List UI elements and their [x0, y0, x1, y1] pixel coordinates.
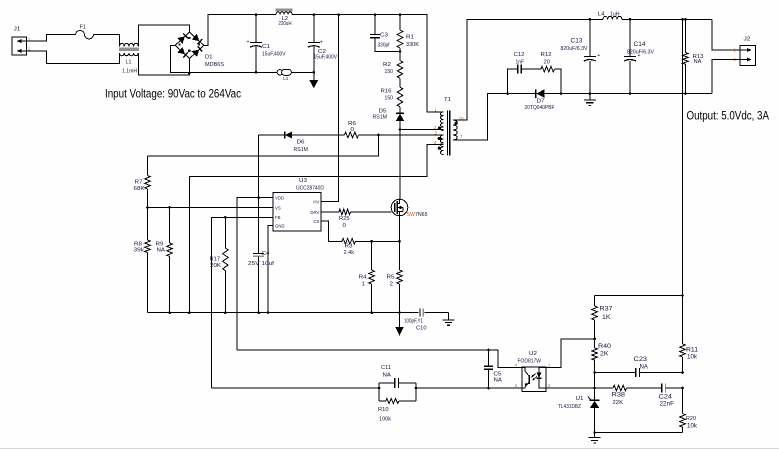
svg-text:R20: R20 — [686, 416, 696, 422]
svg-text:Input Voltage: 90Vac to 264Vac: Input Voltage: 90Vac to 264Vac — [105, 87, 241, 101]
wire T1 pin2 switch node — [400, 129, 443, 131]
diode D7 — [508, 89, 561, 111]
wire DC- rail L3 to C2 — [291, 71, 313, 73]
svg-text:UCC28740D: UCC28740D — [296, 186, 324, 192]
wire F1 to L1 — [94, 35, 120, 47]
wire T1 pin7 to return rail — [453, 94, 508, 140]
svg-text:R10: R10 — [378, 407, 389, 413]
svg-text:D1: D1 — [205, 55, 213, 61]
decor faint bottom line — [0, 448, 779, 450]
svg-text:R7: R7 — [135, 179, 143, 185]
shunt regulator U1 TL431DBZ — [558, 388, 600, 433]
primary ground arrow (bus) — [395, 313, 404, 336]
wire T1 pin10 to output rail — [453, 19, 590, 120]
capacitor C23 — [595, 356, 684, 377]
svg-text:NA: NA — [157, 248, 166, 254]
svg-text:R25: R25 — [339, 216, 350, 222]
svg-text:R8: R8 — [134, 241, 142, 247]
svg-text:1uH: 1uH — [610, 11, 620, 17]
capacitor C13 — [561, 18, 601, 95]
svg-text:NA: NA — [694, 59, 702, 65]
svg-text:C12: C12 — [514, 52, 525, 58]
resistor R16 — [381, 87, 403, 113]
wire primary ground bus — [148, 312, 419, 314]
svg-text:C24: C24 — [659, 394, 673, 401]
svg-text:R4: R4 — [359, 274, 367, 280]
inductor L3 — [277, 69, 291, 81]
svg-text:2: 2 — [390, 281, 394, 287]
svg-text:C13: C13 — [571, 38, 584, 44]
svg-text:R11: R11 — [686, 347, 698, 354]
svg-text:150: 150 — [385, 95, 394, 101]
wire L1 to D1 AC1 — [138, 25, 189, 46]
earth ground secondary — [589, 94, 591, 100]
diode D5 — [373, 109, 405, 130]
svg-text:NA: NA — [494, 377, 503, 383]
resistor R1 — [397, 13, 419, 60]
svg-text:VDD: VDD — [275, 196, 284, 201]
svg-text:100k: 100k — [379, 416, 391, 422]
svg-text:10k: 10k — [687, 422, 698, 429]
transformer T1 — [434, 97, 464, 156]
capacitor C4 — [248, 198, 275, 314]
diode D6 — [259, 131, 322, 153]
fuse F1 — [76, 25, 94, 39]
svg-text:1: 1 — [362, 281, 366, 287]
svg-text:R2: R2 — [383, 62, 391, 68]
svg-text:R17: R17 — [210, 257, 221, 263]
svg-text:TL431DBZ: TL431DBZ — [558, 404, 581, 410]
resistor R3 — [321, 221, 401, 256]
resistor R8 — [134, 208, 151, 313]
svg-text:100pF,Y1: 100pF,Y1 — [404, 319, 423, 325]
svg-text:330pf: 330pf — [378, 43, 390, 49]
svg-text:R9: R9 — [156, 241, 164, 247]
svg-text:U3: U3 — [299, 178, 307, 184]
svg-text:0: 0 — [351, 127, 355, 133]
resistor R37 — [592, 295, 613, 339]
capacitor C11 and resistor R10 — [378, 365, 416, 422]
inductor L2 — [276, 8, 293, 27]
bridge rectifier D1 — [175, 32, 224, 68]
svg-text:0: 0 — [343, 223, 347, 229]
svg-text:J2: J2 — [744, 37, 751, 43]
wire DC+ rail to T1 pin1 — [292, 15, 443, 112]
svg-text:FB: FB — [275, 215, 281, 220]
svg-text:Output: 5.0Vdc, 3A: Output: 5.0Vdc, 3A — [687, 108, 770, 122]
svg-text:C1: C1 — [262, 44, 270, 50]
svg-text:U2: U2 — [529, 351, 537, 357]
capacitor C12 and resistor R12 — [506, 52, 562, 95]
capacitor C2 — [308, 13, 337, 73]
svg-text:20K: 20K — [210, 263, 221, 269]
wire R37 top to output sense — [595, 294, 683, 296]
wire output return rail — [561, 93, 712, 95]
resistor R4 — [359, 241, 375, 314]
junction blob under bridge — [188, 72, 191, 75]
svg-text:C11: C11 — [381, 365, 391, 371]
svg-text:22K: 22K — [613, 400, 624, 406]
svg-text:39k: 39k — [134, 248, 145, 254]
resistor R11 — [680, 295, 699, 372]
svg-text:20TQ040PBF: 20TQ040PBF — [525, 105, 556, 111]
svg-text:C23: C23 — [634, 356, 648, 363]
svg-text:D5: D5 — [379, 109, 387, 115]
wire T1 pin3 aux — [358, 134, 443, 136]
optocoupler U2 FOD817W — [515, 351, 551, 391]
inductor L4 — [598, 11, 622, 19]
wire output rail top — [590, 18, 603, 20]
svg-text:68K: 68K — [134, 186, 145, 192]
wire T1 pin4 to gnd bus — [189, 145, 443, 313]
svg-text:220uH: 220uH — [279, 21, 292, 27]
svg-text:L3: L3 — [283, 76, 288, 81]
wire L1 to D1 AC2 — [138, 53, 189, 75]
wire J1 pin1 to F1 — [27, 35, 76, 41]
svg-text:R38: R38 — [612, 391, 626, 398]
svg-text:F1: F1 — [80, 25, 87, 31]
svg-text:C14: C14 — [634, 42, 647, 48]
svg-text:R6: R6 — [348, 121, 356, 127]
svg-text:20: 20 — [544, 60, 551, 66]
wire D1 left vertex to DC- rail — [170, 45, 277, 72]
wire opto collector to R37 R40 node — [546, 339, 595, 368]
svg-text:10k: 10k — [687, 354, 698, 361]
svg-text:L1: L1 — [126, 60, 132, 66]
svg-text:MDB6S: MDB6S — [205, 62, 224, 68]
resistor R13 — [683, 18, 704, 95]
resistor R5 — [387, 241, 403, 314]
capacitor C3 — [370, 13, 400, 51]
svg-text:1K: 1K — [602, 314, 611, 321]
wire opto cathode to U1 node — [546, 387, 595, 389]
capacitor C1 — [247, 13, 286, 73]
svg-text:+: + — [247, 40, 250, 46]
svg-text:2K: 2K — [600, 351, 609, 358]
wire U1 anode to R20 — [595, 432, 683, 434]
connector J2 — [712, 19, 756, 93]
svg-text:NA: NA — [383, 372, 392, 378]
svg-text:R3: R3 — [345, 244, 353, 250]
wire U3 GND pin — [268, 226, 273, 313]
svg-text:330K: 330K — [406, 42, 419, 48]
wire HV net — [321, 15, 339, 202]
svg-text:+: + — [597, 53, 600, 59]
transistor Q1 SW7N65 — [391, 199, 427, 218]
resistor R25 — [321, 209, 391, 229]
svg-text:SW7N65: SW7N65 — [407, 212, 428, 218]
svg-text:25V 10uf: 25V 10uf — [248, 261, 275, 267]
svg-text:HV: HV — [313, 200, 319, 205]
earth ground at C10 — [448, 313, 450, 320]
svg-text:FOD817W: FOD817W — [518, 359, 542, 365]
svg-text:15uF,400V: 15uF,400V — [314, 55, 338, 61]
earth ground at U1 — [594, 433, 596, 438]
resistor R38 — [595, 385, 662, 406]
capacitor C24 — [659, 384, 684, 408]
wire aux to R7 — [148, 135, 379, 156]
svg-text:DRV: DRV — [310, 210, 319, 215]
resistor R17 — [210, 217, 229, 314]
svg-text:820uF/6.3V: 820uF/6.3V — [627, 49, 654, 55]
wire output sense vertical — [682, 19, 684, 295]
resistor R9 — [156, 208, 173, 314]
resistor R7 — [134, 156, 151, 207]
svg-text:R16: R16 — [381, 88, 392, 94]
capacitor C10 — [404, 309, 427, 332]
svg-text:150: 150 — [385, 69, 394, 75]
svg-text:T1: T1 — [444, 97, 451, 103]
svg-text:820uF/6.3V: 820uF/6.3V — [561, 46, 588, 52]
svg-text:22nF: 22nF — [660, 401, 675, 408]
svg-text:15uF,400V: 15uF,400V — [262, 52, 286, 58]
svg-text:RS1M: RS1M — [373, 115, 388, 121]
wire FB to opto emitter — [212, 387, 380, 389]
svg-text:1nF: 1nF — [516, 60, 525, 66]
wire D6 cathode to VDD — [258, 135, 260, 198]
svg-text:1.1mH: 1.1mH — [122, 69, 137, 75]
svg-text:L4: L4 — [598, 11, 605, 17]
wire VDD line — [237, 198, 273, 350]
svg-text:GND: GND — [275, 224, 285, 229]
wire J1 pin2 to L1 — [27, 51, 120, 63]
svg-text:VS: VS — [275, 205, 281, 210]
svg-text:C10: C10 — [416, 326, 427, 332]
svg-text:R5: R5 — [387, 274, 395, 280]
svg-text:R1: R1 — [406, 35, 414, 41]
op-amp U3 UCC28740D — [273, 178, 324, 231]
resistor R40 — [592, 339, 611, 388]
resistor R6 — [322, 121, 359, 138]
capacitor C5 — [484, 350, 502, 389]
svg-text:CS: CS — [313, 219, 319, 224]
resistor R2 — [383, 61, 403, 88]
svg-text:U1: U1 — [576, 396, 584, 402]
inductor L1 — [119, 43, 139, 74]
svg-text:RS1M: RS1M — [294, 147, 309, 153]
svg-text:C3: C3 — [380, 32, 388, 38]
wire MOSFET source — [399, 216, 401, 242]
svg-text:J1: J1 — [14, 27, 21, 33]
svg-text:+: + — [320, 40, 323, 46]
wire VS line — [148, 207, 274, 209]
capacitor C14 — [624, 18, 654, 95]
svg-text:R12: R12 — [541, 52, 552, 58]
wire FB line — [212, 217, 274, 388]
primary ground arrow (input) — [309, 72, 318, 88]
svg-text:R40: R40 — [598, 343, 611, 350]
svg-text:R37: R37 — [600, 305, 613, 312]
wire D1 right vertex to DC+ rail — [204, 15, 276, 46]
wire VDD to opto collector — [237, 350, 522, 367]
connector J1 — [12, 27, 31, 56]
resistor R20 — [680, 388, 698, 433]
svg-text:NA: NA — [640, 364, 649, 371]
svg-text:D7: D7 — [537, 99, 545, 105]
svg-text:2.4k: 2.4k — [344, 250, 355, 256]
svg-text:D6: D6 — [297, 140, 305, 146]
